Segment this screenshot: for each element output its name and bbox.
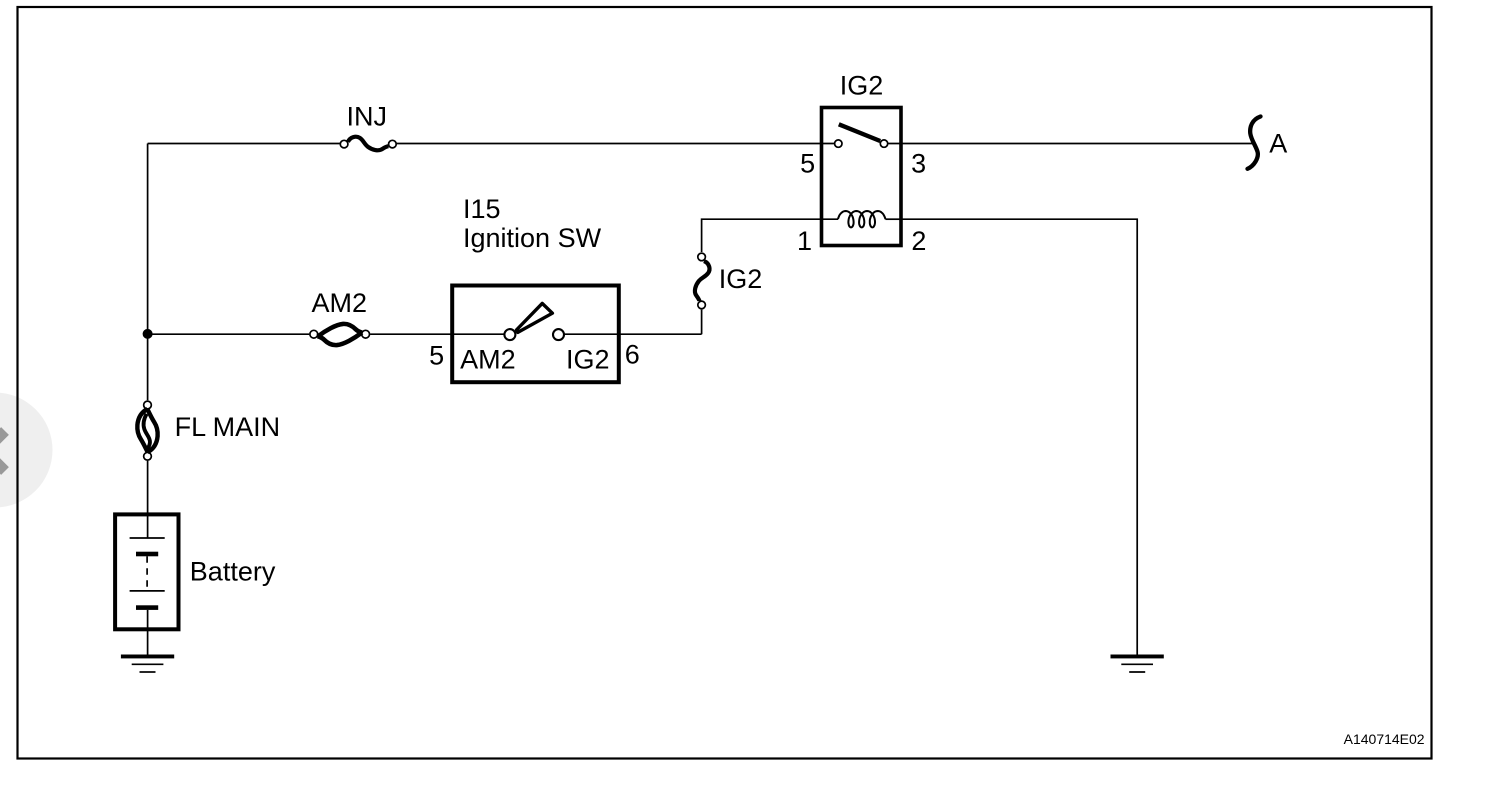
relay coil bbox=[838, 211, 885, 227]
ignition switch contact AM2 bbox=[504, 329, 515, 340]
wire from relay pin 2 to right vertical bbox=[901, 219, 1137, 654]
relay IG2 box bbox=[822, 108, 902, 246]
svg-text:INJ: INJ bbox=[347, 102, 388, 132]
wire top horizontal left segment bbox=[148, 143, 340, 145]
svg-text:IG2: IG2 bbox=[566, 345, 610, 375]
svg-text:6: 6 bbox=[625, 340, 640, 370]
svg-text:5: 5 bbox=[429, 341, 444, 371]
relay switch contact 5 bbox=[835, 140, 842, 147]
svg-text:AM2: AM2 bbox=[460, 345, 516, 375]
fuse INJ bbox=[340, 102, 396, 151]
svg-text:I15: I15 bbox=[463, 194, 501, 224]
relay switch arm bbox=[839, 124, 880, 141]
fusible link FL MAIN bbox=[137, 401, 280, 460]
ignition switch I15 box bbox=[452, 286, 619, 383]
fuse AM2 bbox=[310, 288, 370, 345]
relay coil stub right bbox=[885, 218, 901, 220]
svg-text:FL MAIN: FL MAIN bbox=[175, 412, 281, 442]
svg-text:Ignition SW: Ignition SW bbox=[463, 223, 602, 253]
svg-text:AM2: AM2 bbox=[312, 288, 368, 318]
svg-text:IG2: IG2 bbox=[840, 71, 884, 101]
svg-text:IG2: IG2 bbox=[719, 264, 763, 294]
battery bbox=[115, 514, 276, 629]
wire switch stub to pin3 and right segment to A bbox=[888, 143, 1252, 145]
wire top horizontal mid segment bbox=[397, 143, 834, 145]
ignition switch contact IG2 bbox=[553, 329, 564, 340]
svg-text:A140714E02: A140714E02 bbox=[1344, 731, 1425, 747]
ignition switch wire stubs inside box bbox=[452, 333, 619, 335]
connector A break symbol bbox=[1248, 117, 1288, 169]
wire battery to ground bbox=[147, 610, 149, 655]
nav arrow button bbox=[0, 393, 53, 508]
ground under battery bbox=[121, 655, 174, 673]
wire AM2 horizontal bbox=[148, 333, 702, 335]
ignition switch key lever bbox=[516, 303, 552, 332]
svg-text:3: 3 bbox=[911, 148, 926, 178]
fuse IG2 vertical bbox=[695, 253, 762, 309]
svg-text:5: 5 bbox=[800, 148, 815, 178]
node junction dot bbox=[143, 329, 153, 339]
ground bottom right bbox=[1111, 655, 1164, 673]
svg-text:2: 2 bbox=[911, 226, 926, 256]
svg-text:Battery: Battery bbox=[190, 556, 276, 586]
svg-text:A: A bbox=[1269, 129, 1287, 159]
svg-text:1: 1 bbox=[797, 226, 812, 256]
wire from IG2 fuse top to relay coil pin 1 bbox=[702, 219, 838, 334]
relay switch contact 3 bbox=[880, 140, 887, 147]
wire FL MAIN to battery bbox=[147, 461, 149, 538]
wire left vertical from top wire to FL MAIN bbox=[147, 144, 149, 401]
